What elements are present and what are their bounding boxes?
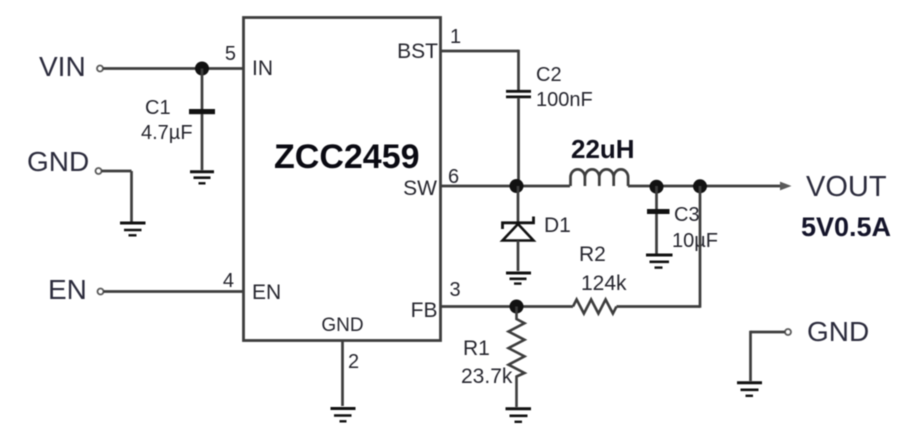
svg-text:2: 2: [348, 351, 359, 373]
svg-text:5V0.5A: 5V0.5A: [801, 212, 891, 242]
capacitor C2 plates: [506, 91, 531, 97]
svg-text:C2: C2: [536, 64, 562, 86]
wire BST horizontal: [441, 50, 519, 53]
junction VOUT/R2: [693, 179, 707, 193]
svg-text:EN: EN: [252, 281, 281, 304]
wire BST down to C2: [517, 50, 520, 90]
wire R2 to VOUT riser: [617, 305, 701, 308]
junction FB/R1/R2: [510, 300, 524, 314]
svg-text:R1: R1: [463, 337, 490, 360]
svg-text:5: 5: [225, 43, 236, 65]
svg-text:GND: GND: [321, 315, 363, 336]
wire GND-left horizontal: [102, 170, 132, 173]
svg-text:4: 4: [223, 270, 234, 292]
wire inductor to VOUT: [628, 185, 784, 188]
junction SW/C2/D1: [510, 179, 524, 193]
wire VIN to pin 5: [103, 67, 243, 70]
svg-text:C3: C3: [674, 204, 700, 226]
diode D1 triangle: [503, 224, 534, 241]
wire C2 to SW net: [517, 98, 520, 186]
svg-text:124k: 124k: [581, 272, 627, 295]
svg-text:IN: IN: [252, 57, 273, 80]
node GND-right terminal: [785, 329, 791, 335]
ground symbol right: [737, 383, 762, 396]
ground below D1: [506, 273, 531, 284]
svg-text:FB: FB: [411, 299, 438, 322]
ground symbol left: [120, 223, 146, 235]
svg-text:3: 3: [450, 279, 461, 301]
junction VIN/C1: [195, 62, 209, 76]
svg-text:VOUT: VOUT: [806, 171, 887, 203]
svg-text:22uH: 22uH: [571, 134, 635, 164]
wire GND-right vertical: [749, 331, 752, 381]
resistor R2 zigzag: [573, 300, 617, 314]
svg-text:23.7k: 23.7k: [461, 365, 513, 388]
svg-text:R2: R2: [579, 243, 606, 266]
node VIN terminal: [97, 66, 103, 72]
wire junction to C1 top: [201, 69, 204, 110]
svg-text:GND: GND: [807, 316, 869, 347]
wire GND-left vertical: [130, 171, 133, 222]
svg-text:SW: SW: [403, 177, 437, 200]
resistor R1 zigzag: [509, 307, 525, 408]
diode D1 (schottky) cathode bar: [503, 217, 534, 230]
svg-text:GND: GND: [27, 146, 89, 177]
svg-text:BST: BST: [397, 40, 438, 63]
ground below C3: [646, 255, 673, 268]
wire SW junction to D1: [517, 186, 520, 222]
node VOUT terminal arrow: [780, 182, 792, 191]
wire EN to pin 4: [104, 290, 244, 293]
capacitor C3 plate: [647, 209, 670, 214]
wire pin 2 to ground: [341, 341, 344, 406]
capacitor C1 plate: [189, 109, 215, 114]
inductor L1 22uH: [571, 169, 629, 186]
wire riser to VOUT net: [699, 186, 702, 308]
svg-text:10µF: 10µF: [672, 230, 718, 252]
svg-text:D1: D1: [544, 214, 571, 237]
wire C1 to ground: [201, 114, 204, 170]
IC U1 ZCC2459 body: [244, 18, 441, 341]
svg-text:VIN: VIN: [39, 51, 86, 82]
svg-text:C1: C1: [145, 97, 171, 119]
node GND-left terminal: [96, 168, 102, 174]
wire GND-right horizontal: [751, 331, 786, 334]
svg-text:EN: EN: [48, 274, 87, 305]
wire C3 to ground: [655, 214, 658, 254]
svg-text:100nF: 100nF: [536, 89, 593, 111]
svg-text:1: 1: [450, 26, 461, 48]
wire FB to R2: [441, 305, 573, 308]
ground below pin 2: [331, 409, 356, 422]
node EN terminal: [98, 289, 104, 295]
svg-text:ZCC2459: ZCC2459: [274, 138, 420, 176]
wire C3 from junction: [655, 186, 658, 209]
wire SW to inductor: [441, 185, 570, 188]
ground below R1: [506, 409, 532, 422]
ground below C1: [190, 172, 214, 184]
wire D1 to ground: [517, 241, 520, 272]
junction L/C3: [650, 180, 664, 194]
svg-text:4.7µF: 4.7µF: [141, 122, 193, 144]
